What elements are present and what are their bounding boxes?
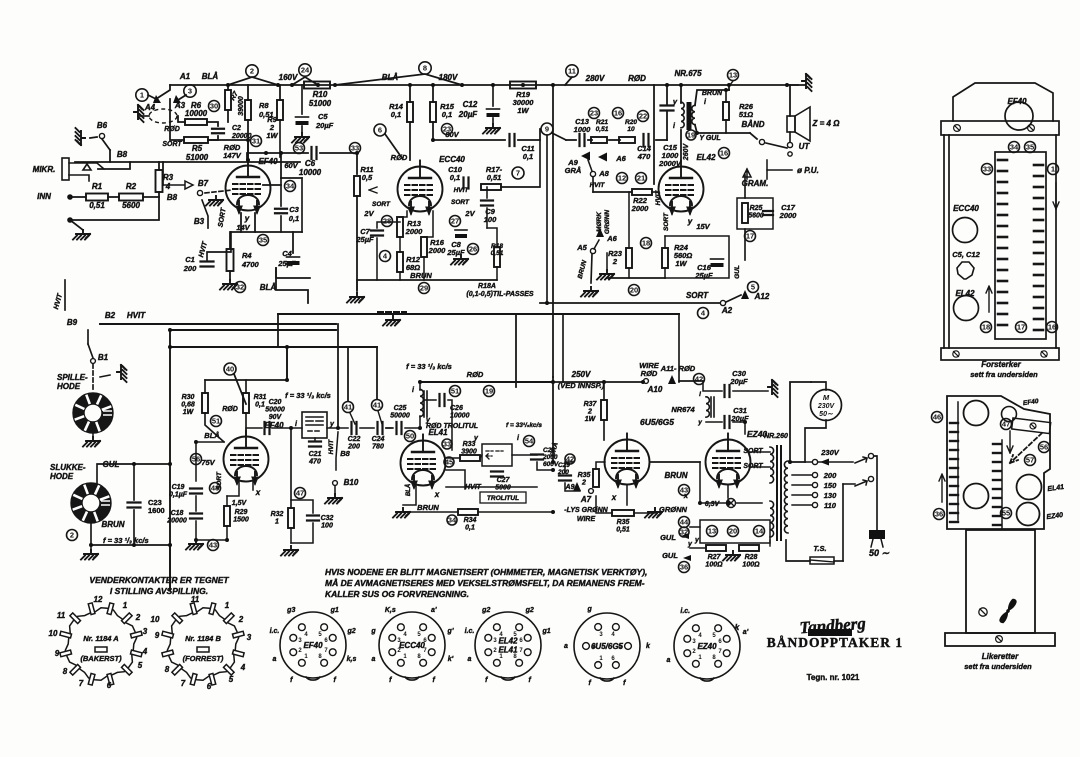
tube V6 6U5 (605, 434, 650, 487)
svg-text:45: 45 (445, 458, 453, 467)
svg-text:A6: A6 (606, 234, 617, 243)
svg-text:7: 7 (79, 679, 84, 688)
wire rail 314 vert l (277, 314, 279, 347)
svg-text:19: 19 (485, 387, 493, 396)
wire C9 down (486, 208, 488, 228)
junction 3 (316, 83, 320, 87)
arrow gul b (683, 555, 691, 561)
socket ECC40 pin 7 (428, 649, 435, 656)
wire ez40 cath down (727, 485, 729, 498)
svg-text:x: x (611, 493, 617, 502)
svg-text:19: 19 (687, 131, 695, 140)
svg-text:C4: C4 (282, 249, 292, 258)
wire c3 upper (280, 178, 282, 206)
svg-text:230V: 230V (820, 448, 840, 457)
svg-text:ø P.U.: ø P.U. (797, 166, 819, 175)
wire a9 blade (588, 160, 592, 171)
tube V1 EF40 (226, 160, 271, 213)
svg-text:60V: 60V (284, 161, 298, 170)
resistor R29 (224, 506, 230, 526)
resistor R8 (245, 100, 251, 120)
wire slukke bot stub (90, 545, 92, 550)
svg-text:2V: 2V (464, 209, 475, 218)
svg-text:6,3V: 6,3V (705, 501, 721, 508)
svg-text:R333900: R333900 (461, 441, 477, 456)
wire node1 to A4 (148, 95, 156, 99)
wire osc rail (420, 381, 553, 383)
svg-text:RØD: RØD (164, 126, 180, 133)
svg-text:110: 110 (824, 501, 837, 510)
wire c24 right (386, 427, 392, 429)
wire r18 bottom (496, 267, 498, 280)
node 56 (191, 454, 202, 465)
junction 28 (289, 426, 293, 430)
resistor R5 (184, 137, 208, 143)
svg-text:14: 14 (755, 527, 764, 536)
svg-text:2V: 2V (363, 209, 374, 218)
wire r33 to coil2 (480, 455, 482, 458)
svg-text:C6: C6 (305, 159, 316, 168)
svg-text:50∼: 50∼ (819, 411, 834, 418)
wire coil2 right (512, 454, 537, 456)
wire node9 vert (546, 135, 548, 303)
socket EZ40 pin 4 (692, 625, 699, 632)
svg-text:sett fra undersiden: sett fra undersiden (970, 370, 1038, 379)
resistor R30 (202, 393, 208, 413)
svg-text:13: 13 (708, 527, 716, 536)
wire plate lead el42b (680, 130, 682, 160)
wire R9 bottom (279, 120, 281, 157)
wire r35b right (634, 508, 655, 513)
resistor R6 (185, 119, 207, 125)
svg-text:1W: 1W (675, 259, 687, 268)
svg-text:MÅ DE AVMAGNETISERES MED VEKSE: MÅ DE AVMAGNETISERES MED VEKSELSTRØMSFEL… (325, 578, 645, 588)
svg-text:33: 33 (443, 440, 451, 449)
svg-text:13: 13 (729, 71, 737, 80)
svg-text:11: 11 (57, 611, 66, 620)
wire r37 top (603, 382, 605, 400)
svg-text:y: y (687, 217, 693, 226)
svg-text:R10: R10 (313, 90, 328, 99)
core NR675 (687, 102, 692, 130)
socket EF40 pin 2 (290, 649, 297, 656)
junction 49 (168, 328, 172, 332)
wire r34 rail (403, 511, 458, 513)
wire sec bottom (695, 125, 750, 133)
svg-text:2: 2 (70, 531, 74, 540)
svg-text:BLÅ: BLÅ (202, 72, 219, 81)
node 30 (209, 101, 220, 112)
wire bottom rail r (834, 560, 843, 562)
socket EF40 pin 4 (298, 624, 305, 631)
svg-text:g2: g2 (346, 628, 355, 635)
wire node 11 stem (565, 77, 572, 85)
svg-text:B8: B8 (167, 193, 178, 202)
svg-text:HVIT: HVIT (127, 311, 146, 320)
node 4 v2 (380, 251, 391, 262)
junction 38 (132, 543, 136, 547)
contact A10 (644, 379, 649, 384)
svg-text:R255600: R255600 (748, 205, 764, 220)
junction 33 (695, 131, 699, 135)
svg-text:A12: A12 (754, 292, 770, 301)
wire c29 up (565, 462, 572, 473)
svg-text:BRUN: BRUN (664, 471, 687, 480)
svg-text:A4: A4 (144, 103, 156, 112)
svg-text:25µF: 25µF (277, 259, 296, 268)
svg-text:ECC40: ECC40 (439, 155, 465, 164)
wire R8 bottom (247, 120, 249, 160)
wire 347 drop c (376, 347, 378, 399)
wire band to ut (766, 143, 787, 148)
svg-text:BLÅ: BLÅ (382, 73, 399, 82)
svg-text:C14470: C14470 (637, 144, 652, 161)
resistor R16 (421, 237, 427, 257)
svg-text:4: 4 (142, 647, 148, 656)
svg-text:50: 50 (406, 432, 414, 441)
tube V7 EZ40 (706, 434, 751, 487)
node 19c (686, 130, 696, 140)
wire R9 top (279, 85, 281, 100)
wire rail down to B8 arrow (162, 162, 164, 185)
forsterker node 1 (1048, 164, 1059, 175)
ground below C5 (292, 133, 309, 143)
wire r32 bot (290, 528, 292, 543)
junction 43 (194, 538, 198, 542)
resistor R20 (619, 137, 635, 143)
svg-text:5600: 5600 (122, 201, 140, 210)
likeretter EF40 circle (1002, 407, 1017, 422)
svg-text:R2651Ω: R2651Ω (739, 102, 754, 119)
wire rail 314 (278, 313, 679, 315)
socket ECC40 (379, 612, 445, 680)
wire B3 blade (202, 200, 208, 228)
likeretter node 46 (932, 412, 943, 423)
svg-text:i.c.: i.c. (270, 628, 280, 635)
forsterker body (944, 135, 1056, 348)
svg-text:A1: A1 (179, 72, 191, 81)
node 3 (184, 85, 196, 97)
socket 6U5 pin 3 (595, 624, 602, 631)
svg-text:55: 55 (1002, 509, 1010, 518)
svg-text:16: 16 (614, 109, 622, 118)
resistor R37 (601, 400, 607, 420)
box R25C17 (737, 198, 773, 229)
wire c30 left (703, 381, 722, 391)
wire b1 dashes (92, 364, 94, 392)
wire c13-r21 (588, 139, 592, 141)
svg-text:5: 5 (229, 675, 234, 684)
wire v 250 down (552, 377, 554, 462)
plug 50hz (869, 530, 885, 547)
lamp 6,3V (727, 499, 736, 508)
svg-text:35: 35 (259, 236, 267, 245)
wire r16 bottom (423, 257, 425, 280)
svg-text:23: 23 (590, 109, 598, 118)
wire lamp right (736, 502, 762, 504)
wire node6 slash (385, 134, 402, 158)
capacitor C9 (481, 201, 493, 206)
svg-text:RØD: RØD (467, 370, 484, 379)
svg-text:44: 44 (680, 518, 689, 527)
svg-text:B7: B7 (198, 179, 209, 188)
svg-text:15V: 15V (696, 222, 710, 231)
wire gnd stub input (70, 220, 83, 230)
svg-text:x: x (683, 491, 689, 500)
wire c22-c24 (360, 427, 374, 429)
svg-text:EL42: EL42 (955, 289, 975, 298)
resistor R35b (612, 510, 634, 516)
wire r35a top (596, 462, 605, 469)
junction 44 (743, 420, 747, 424)
wire sec bottom stub (769, 540, 771, 546)
switch S2 arrow (855, 480, 867, 486)
socket EL42 EL41 pin 4 (493, 624, 500, 631)
capacitor C18 (190, 514, 202, 519)
wire c26 right (448, 400, 452, 450)
svg-text:(FORREST): (FORREST) (183, 654, 224, 663)
wire R14 bottom (409, 122, 411, 160)
wire screen V1 (263, 184, 281, 186)
likeretter node 56 (1039, 442, 1050, 453)
wire cathode V1 down (240, 213, 242, 232)
svg-text:C32100: C32100 (321, 515, 334, 530)
capacitor C20 (265, 422, 270, 434)
wire B6 gnd (90, 137, 97, 138)
contact s2 (868, 476, 873, 481)
wire R6 right (207, 122, 218, 126)
junction 29 (336, 426, 340, 430)
node 35 (258, 235, 269, 246)
svg-text:A9: A9 (565, 484, 575, 491)
socket ECC40 pin 6 (428, 634, 435, 641)
wire osc box vert 287 (286, 347, 288, 380)
node 23 (442, 124, 453, 135)
svg-text:x: x (255, 488, 261, 497)
wire el42 cath box (665, 236, 729, 278)
resistor R23 (626, 248, 632, 268)
wire sec top stub (728, 85, 730, 90)
wire R5 left (170, 99, 184, 140)
node 48 (210, 483, 221, 494)
svg-text:BRUN: BRUN (702, 90, 723, 97)
svg-text:B6: B6 (97, 121, 108, 130)
svg-text:NR.675: NR.675 (674, 69, 702, 78)
junction 15 (246, 158, 250, 162)
wire B7 dashes (205, 190, 232, 193)
svg-text:k: k (735, 623, 740, 632)
node 29 (419, 283, 430, 294)
node 20c (728, 526, 739, 537)
wire sec top (695, 90, 729, 105)
wire erase head lead (138, 115, 149, 117)
junction 32 (724, 88, 728, 92)
socket EF40 pin 7 (329, 649, 336, 656)
node 21b (636, 173, 647, 184)
junction 11 (665, 83, 669, 87)
ground below C8 (451, 255, 468, 265)
junction 41 (194, 440, 198, 444)
svg-text:EZ40: EZ40 (697, 642, 717, 651)
resistor R14 (407, 102, 413, 122)
wire bottom rail l (786, 540, 810, 561)
wire c23 bottom (133, 510, 135, 545)
likeretter inner edge (958, 402, 1002, 528)
capacitor C11 (510, 134, 515, 146)
junction 10 (521, 83, 525, 87)
svg-text:GRØNN: GRØNN (659, 505, 688, 514)
wire r25 bottom (744, 229, 746, 260)
svg-text:R3: R3 (163, 173, 174, 182)
node 47b (295, 488, 306, 499)
socket EL42 EL41 pin 1 (493, 659, 500, 666)
svg-text:53: 53 (295, 144, 303, 153)
wire 347 drop a (286, 347, 288, 380)
svg-text:R2: R2 (126, 182, 137, 191)
wire v2 cath right (424, 211, 433, 237)
capacitor C10 (464, 178, 469, 189)
svg-text:A8: A8 (598, 169, 609, 178)
node 51b (450, 386, 461, 397)
wire v2 net gnd stub (356, 280, 358, 293)
junction 47 (788, 460, 792, 464)
svg-text:a: a (564, 643, 568, 650)
node 32b (679, 527, 689, 537)
junction 14 (246, 138, 250, 142)
wire spk top (789, 85, 791, 116)
junction 31 (785, 83, 789, 87)
wire s1 right (874, 456, 877, 530)
svg-text:51: 51 (451, 387, 459, 396)
socket EL42 EL41 pin 3 (485, 634, 492, 641)
contact A7 (589, 489, 594, 494)
svg-text:Z = 4 Ω: Z = 4 Ω (812, 119, 841, 128)
svg-text:a: a (273, 656, 277, 663)
svg-text:C110,1: C110,1 (521, 144, 534, 161)
svg-text:A11- RØD: A11- RØD (660, 364, 696, 373)
svg-text:C275000: C275000 (495, 477, 511, 492)
osc coil box (302, 412, 327, 438)
wire r22 right (652, 191, 659, 193)
svg-text:WIRERØD: WIRERØD (639, 361, 660, 378)
forsterker EF40 circle (1005, 102, 1033, 130)
forsterker can C5C12 (957, 262, 974, 279)
svg-text:11: 11 (191, 595, 200, 604)
forsterker connector strip (995, 152, 1046, 339)
svg-text:Tegn. nr. 1021: Tegn. nr. 1021 (807, 673, 860, 682)
core NR674 (711, 397, 714, 417)
junction 6 (408, 83, 412, 87)
wire R2 to R3 node (143, 196, 159, 198)
socket ECC40 pin 8 (420, 659, 427, 666)
forsterker arrow up (986, 286, 992, 312)
svg-text:B1: B1 (98, 353, 109, 362)
svg-text:WIRE: WIRE (577, 516, 596, 523)
svg-text:24: 24 (301, 66, 310, 75)
resistor R24 (662, 248, 668, 268)
resistor R27 (706, 545, 726, 551)
svg-text:UT: UT (799, 142, 811, 151)
resistor R2 (119, 194, 143, 201)
motor M (811, 390, 842, 421)
socket ECC40 pin 1 (397, 659, 404, 666)
wire el41 grid left (446, 457, 460, 459)
wire hvit long (100, 323, 336, 325)
likeretter contact ticks (950, 423, 1001, 525)
terminal UT a (787, 142, 792, 147)
forsterker ECC40 circle (953, 218, 978, 243)
wire V1 k2 down (254, 213, 256, 232)
forsterker strip contacts (998, 160, 1043, 330)
svg-text:g: g (370, 628, 376, 635)
node 8 (419, 62, 431, 74)
wire top bus BLA (170, 84, 805, 86)
likeretter arrow up (939, 474, 945, 502)
node 18b (641, 238, 652, 249)
ground osc left (186, 540, 203, 550)
node 31 (251, 136, 262, 147)
socket EF40 pin 3 (290, 634, 297, 641)
wire hvit rail (446, 486, 537, 488)
svg-text:0,51: 0,51 (89, 201, 105, 210)
node 9 (541, 123, 553, 135)
wire 679 drop (678, 314, 680, 382)
svg-text:1: 1 (123, 601, 128, 610)
wire R1-R2 (108, 196, 119, 198)
wire R7 top (227, 85, 229, 90)
wire c26 left (424, 399, 436, 401)
likeretter rail (1012, 418, 1051, 434)
forsterker node 17 (1016, 322, 1027, 333)
node 41a (343, 402, 354, 413)
node 17b (745, 231, 756, 242)
osc coil inner (306, 417, 323, 431)
capacitor C6 (312, 147, 317, 159)
wire c20 right (272, 427, 302, 429)
resistor R26 (723, 102, 729, 120)
wire c28 down (537, 462, 553, 470)
socket ECC40 pin 3 (389, 634, 396, 641)
wire r18 top (487, 228, 497, 247)
wire R3 top to rail (158, 162, 160, 170)
forsterker node 35 (1025, 142, 1036, 153)
junction 37 (132, 462, 136, 466)
wire el41 cath down (403, 485, 416, 505)
contact A6 arrow (598, 153, 607, 162)
switch wafer Nr1184A (60, 603, 142, 685)
wire b9 vert (64, 280, 66, 310)
node 4b (698, 308, 709, 319)
capacitor C8 (455, 230, 467, 238)
junction 25 (551, 468, 555, 472)
svg-text:B8: B8 (117, 150, 128, 159)
svg-text:180V: 180V (439, 73, 458, 82)
wire C12 gnd (492, 118, 494, 124)
wire C11 right (518, 129, 540, 140)
osc coil2 inner (486, 451, 503, 459)
arrow A7 (573, 482, 581, 491)
node 27 (450, 216, 461, 227)
junction 2 (290, 83, 294, 87)
capacitor C19 (190, 489, 202, 494)
socket EL42 EL41 pin 7 (524, 649, 531, 656)
svg-text:47: 47 (296, 489, 304, 498)
svg-text:Nr. 1184 A: Nr. 1184 A (83, 634, 118, 643)
wire C12 stem (492, 85, 494, 106)
forsterker node 34 (1009, 142, 1020, 153)
wire left rail down (169, 545, 171, 590)
wire a6b blade (594, 240, 599, 249)
